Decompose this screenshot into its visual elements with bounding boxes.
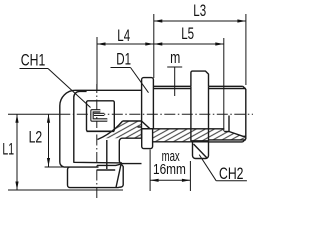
svg-text:D1: D1 xyxy=(116,50,131,69)
svg-text:L5: L5 xyxy=(181,25,194,44)
svg-text:L3: L3 xyxy=(193,2,206,21)
neck / inner corner xyxy=(74,91,122,163)
bottom nut xyxy=(64,164,124,188)
centerlines xyxy=(59,84,253,199)
thread top lines xyxy=(153,85,191,87)
leader D1 xyxy=(111,68,149,93)
svg-text:L4: L4 xyxy=(117,27,130,46)
collar / washer top half xyxy=(142,78,154,129)
tube break / slot xyxy=(228,116,230,132)
band bottom under nut xyxy=(191,140,209,142)
spiral thread symbol xyxy=(92,111,107,120)
body lower-right lobe xyxy=(119,121,141,164)
dim L5 xyxy=(154,38,224,131)
svg-text:16mm: 16mm xyxy=(153,161,186,178)
locknut top half xyxy=(191,71,209,86)
bore lines below axis xyxy=(123,120,142,122)
svg-text:L1: L1 xyxy=(2,139,14,158)
dim L2 xyxy=(45,114,64,167)
thread bottom lines xyxy=(209,141,243,143)
svg-text:L2: L2 xyxy=(29,129,43,147)
locknut bottom half xyxy=(193,141,209,158)
leader CH2 xyxy=(199,155,247,181)
dim max16mm xyxy=(150,150,190,192)
leader m xyxy=(167,67,182,96)
dim L4 xyxy=(97,37,154,90)
svg-text:CH2: CH2 xyxy=(219,165,243,183)
dim L1 xyxy=(8,114,123,190)
svg-text:CH1: CH1 xyxy=(21,52,45,70)
elbow body xyxy=(60,90,141,167)
hatching xyxy=(101,121,246,142)
section hatch thread end xyxy=(224,132,246,140)
flange bottom half xyxy=(142,129,153,149)
part outlines xyxy=(60,71,246,188)
section hatch body xyxy=(101,121,142,138)
vertical leg right wall xyxy=(106,140,108,169)
fillet curve xyxy=(98,121,123,140)
leader CH1 xyxy=(20,69,91,108)
right end face xyxy=(245,89,247,139)
svg-text:m: m xyxy=(170,49,180,67)
dim L3 xyxy=(154,14,246,85)
section hatch stem wall xyxy=(142,129,225,142)
inner port square xyxy=(87,101,115,131)
